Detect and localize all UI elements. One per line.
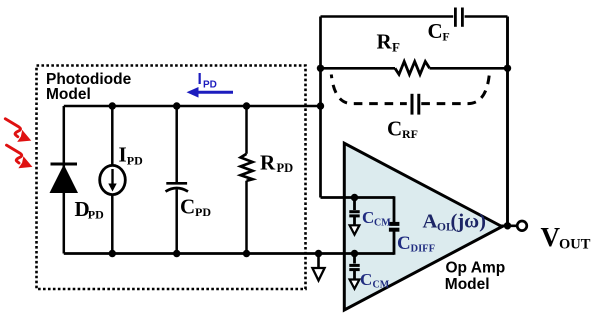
capacitor CRF dashed branch bbox=[331, 75, 489, 115]
wire: RF branch bbox=[321, 67, 508, 70]
wire: inverting input vertical from feedback bbox=[319, 17, 322, 198]
svg-text:CM: CM bbox=[374, 217, 391, 228]
wire: output bbox=[500, 225, 517, 228]
node: inverting input at feedback bbox=[317, 102, 324, 109]
svg-text:F: F bbox=[392, 40, 400, 55]
node: top rail junctions bbox=[109, 102, 116, 109]
wire: CDIFF vertical bbox=[393, 196, 396, 255]
wire: right feedback vertical bbox=[506, 17, 509, 226]
svg-text:PD: PD bbox=[195, 205, 211, 219]
capacitor CPD bbox=[166, 182, 187, 185]
wire: current source column bbox=[111, 106, 114, 254]
op-amp U1 body bbox=[344, 143, 502, 310]
svg-text:A: A bbox=[423, 211, 438, 233]
svg-text:C: C bbox=[180, 195, 195, 219]
svg-text:R: R bbox=[377, 30, 393, 54]
svg-text:C: C bbox=[428, 19, 443, 43]
ground bbox=[312, 254, 324, 281]
svg-text:Model: Model bbox=[445, 276, 490, 293]
light ray arrow 1 bbox=[5, 119, 31, 142]
svg-text:PD: PD bbox=[277, 161, 294, 175]
svg-text:I: I bbox=[119, 143, 127, 167]
node: CCM top junction bbox=[351, 194, 358, 201]
svg-text:RF: RF bbox=[402, 127, 418, 141]
svg-text:OUT: OUT bbox=[559, 237, 591, 253]
wire: bottom rail bbox=[64, 252, 394, 255]
svg-text:R: R bbox=[260, 151, 276, 175]
svg-text:(jω): (jω) bbox=[451, 211, 486, 233]
svg-text:PD: PD bbox=[127, 153, 143, 167]
wire: top rail of photodiode model bbox=[64, 105, 321, 108]
wire: left column (diode branch) bbox=[63, 106, 66, 254]
blue current arrow IPD bbox=[187, 71, 234, 98]
svg-text:Model: Model bbox=[46, 86, 91, 103]
svg-text:C: C bbox=[362, 208, 374, 227]
node: RF right bbox=[504, 65, 511, 72]
resistor RF bbox=[395, 62, 430, 75]
svg-text:DIFF: DIFF bbox=[411, 244, 436, 255]
wire: capacitor CPD column bbox=[175, 106, 178, 254]
resistor RPD bbox=[241, 154, 253, 181]
output terminal bbox=[517, 221, 527, 231]
svg-text:V: V bbox=[541, 222, 561, 252]
wire: inverting input horizontal into op-amp bbox=[321, 196, 395, 199]
svg-text:C: C bbox=[360, 270, 372, 289]
node: output junction bbox=[504, 222, 511, 229]
capacitor CF bbox=[454, 8, 457, 27]
svg-text:F: F bbox=[442, 30, 449, 44]
photodiode model dashed box bbox=[37, 66, 306, 290]
capacitor CCM bottom bbox=[349, 254, 359, 289]
capacitor CCM top bbox=[349, 198, 359, 235]
diode DPD bbox=[51, 163, 78, 166]
node: CCM bottom junction bbox=[351, 250, 358, 257]
svg-text:C: C bbox=[387, 117, 402, 141]
node: ground junction bbox=[315, 250, 322, 257]
wire: resistor RPD column bbox=[245, 106, 248, 254]
current source IPD bbox=[100, 165, 126, 194]
svg-text:CM: CM bbox=[373, 279, 390, 290]
node: bottom rail junctions bbox=[109, 250, 116, 257]
node: RF left bbox=[317, 65, 324, 72]
light ray arrow 2 bbox=[7, 145, 33, 168]
wire: CF top branch bbox=[321, 15, 508, 18]
svg-text:Op Amp: Op Amp bbox=[446, 260, 506, 277]
svg-text:PD: PD bbox=[203, 80, 217, 91]
capacitor CDIFF bbox=[389, 222, 400, 226]
svg-text:PD: PD bbox=[88, 208, 104, 222]
svg-text:I: I bbox=[198, 71, 202, 88]
svg-text:C: C bbox=[397, 233, 411, 254]
